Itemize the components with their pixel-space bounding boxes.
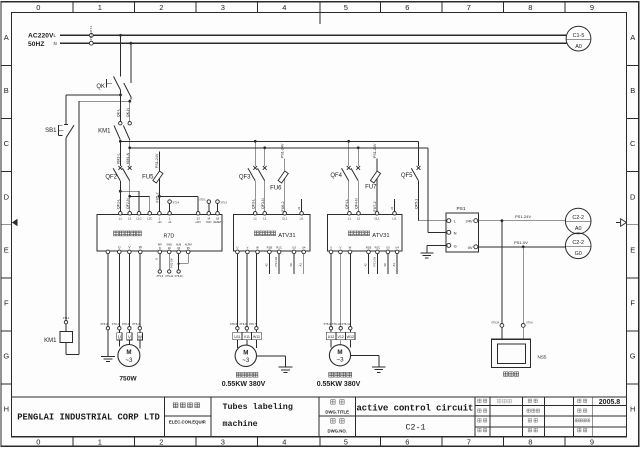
svg-text:M: M — [126, 349, 131, 356]
svg-text:XT1-1: XT1-1 — [89, 25, 93, 33]
svg-text:W: W — [256, 246, 259, 250]
wire M3 to ground — [351, 354, 379, 356]
node L rail start — [119, 140, 122, 143]
svg-text:L1C: L1C — [136, 217, 141, 221]
svg-text:3: 3 — [221, 437, 225, 446]
svg-text:R1B: R1B — [267, 246, 273, 250]
svg-text:L2: L2 — [128, 217, 132, 221]
svg-text:F: F — [4, 299, 9, 308]
svg-text:R1C: R1C — [375, 246, 381, 250]
svg-text:ATV31: ATV31 — [278, 233, 295, 239]
wire coil return — [65, 343, 67, 355]
wire L rail — [120, 140, 418, 142]
node L drop — [119, 34, 122, 37]
node N drop — [129, 42, 132, 45]
breaker QK — [120, 35, 122, 76]
svg-text:PS1-0V: PS1-0V — [372, 257, 376, 267]
servo amplifier box U1 — [97, 214, 222, 251]
ground at PS1 — [420, 252, 433, 254]
svg-text:PS1-24V: PS1-24V — [373, 143, 377, 158]
svg-text:QF3-L: QF3-L — [251, 199, 255, 209]
wire N rail to PS1 N — [427, 148, 429, 233]
title grid small labels — [478, 399, 481, 402]
wire below QK L — [119, 94, 122, 97]
svg-text:1: 1 — [98, 437, 102, 446]
svg-text:machine: machine — [223, 419, 258, 429]
svg-text:L1: L1 — [119, 217, 123, 221]
svg-text:S0: S0 — [383, 263, 387, 267]
svg-text:10: 10 — [168, 246, 172, 250]
svg-text:2005.8: 2005.8 — [599, 399, 621, 406]
svg-text:W: W — [139, 246, 142, 250]
inverter2 control wires — [368, 254, 370, 275]
svg-text:C2-2: C2-2 — [572, 240, 584, 246]
svg-text:XT6-5: XT6-5 — [230, 322, 238, 326]
wire M2 to ground — [257, 355, 286, 357]
terminal stub 2 — [169, 203, 171, 211]
svg-text:XT6-1: XT6-1 — [112, 322, 120, 326]
svg-text:7: 7 — [467, 437, 471, 446]
jumper 1-13 — [158, 195, 161, 198]
svg-text:FU7-2: FU7-2 — [373, 202, 377, 212]
svg-text:FU5: FU5 — [142, 175, 154, 181]
svg-text:XT2-4: XT2-4 — [173, 201, 180, 204]
ground at M2 — [279, 366, 293, 368]
svg-text:QF2-N: QF2-N — [126, 198, 130, 209]
svg-text:W12: W12 — [347, 335, 354, 339]
svg-text:QF2-L: QF2-L — [117, 199, 121, 209]
svg-text:A: A — [4, 33, 9, 42]
svg-text:24V: 24V — [465, 219, 472, 224]
motor M3 — [329, 345, 350, 366]
svg-text:PS1-24V: PS1-24V — [281, 143, 285, 158]
svg-text:XT6-6: XT6-6 — [239, 322, 247, 326]
svg-text:8: 8 — [528, 437, 532, 446]
servo bottom terminals — [106, 250, 110, 254]
node taps — [254, 140, 257, 143]
svg-text:KM1: KM1 — [44, 338, 57, 344]
svg-text:ATV31: ATV31 — [372, 233, 389, 239]
label M2 — [236, 372, 241, 377]
svg-text:CL1: CL1 — [374, 217, 380, 221]
svg-text:G: G — [454, 243, 457, 248]
wire SB1 to coil — [65, 138, 67, 321]
svg-text:~3: ~3 — [242, 357, 250, 364]
svg-text:W: W — [349, 246, 352, 250]
svg-text:S: S — [154, 258, 158, 260]
svg-text:R7D: R7D — [164, 233, 175, 239]
right center mark — [621, 219, 627, 227]
motor M1 phase labels — [117, 333, 122, 340]
svg-text:L2C: L2C — [147, 217, 152, 221]
svg-text:W11: W11 — [253, 335, 260, 339]
wire N rail — [130, 147, 428, 149]
label M3 — [329, 372, 334, 377]
svg-text:L1: L1 — [254, 217, 258, 221]
motor M3 phase labels — [326, 332, 335, 339]
svg-text:7: 7 — [467, 3, 471, 12]
svg-text:M: M — [337, 349, 342, 356]
svg-text:QF2: QF2 — [105, 175, 117, 181]
svg-text:SB1: SB1 — [45, 128, 57, 134]
svg-text:XT6-10: XT6-10 — [332, 322, 341, 326]
wire PS1-24V — [478, 220, 565, 222]
svg-text:KM1: KM1 — [98, 129, 111, 135]
svg-text:QF3-N: QF3-N — [261, 198, 265, 209]
svg-text:Tubes labeling: Tubes labeling — [223, 402, 293, 412]
svg-text:S0: S0 — [289, 263, 293, 267]
inverter1 top terminals — [253, 212, 257, 216]
svg-text:DWG.TITLE: DWG.TITLE — [325, 409, 349, 414]
svg-text:PS1-24V: PS1-24V — [155, 153, 159, 168]
svg-text:B: B — [630, 86, 635, 95]
svg-text:XT6-9: XT6-9 — [323, 322, 331, 326]
touch panel terminals — [500, 324, 504, 328]
svg-text:QF5-1: QF5-1 — [415, 199, 419, 209]
svg-text:D: D — [630, 192, 636, 201]
svg-text:C2-2: C2-2 — [572, 215, 584, 221]
svg-text:A1: A1 — [299, 263, 303, 267]
svg-text:U: U — [118, 334, 121, 339]
wire QF5 to PS1 L — [419, 220, 447, 222]
terminal XT1-N — [89, 41, 93, 45]
inverter2 bottom terminals — [329, 250, 333, 254]
motor M2 drops — [236, 254, 238, 327]
svg-text:LI1: LI1 — [300, 217, 304, 221]
svg-text:G0: G0 — [575, 251, 582, 257]
title block — [12, 396, 627, 398]
svg-text:6: 6 — [405, 437, 409, 446]
svg-text:42: 42 — [364, 263, 368, 267]
terminal QK-L — [119, 122, 122, 125]
ground at M1 — [107, 330, 109, 356]
svg-text:LI1: LI1 — [392, 217, 396, 221]
terminal stub 14 — [208, 203, 210, 211]
svg-text:V11: V11 — [244, 335, 250, 339]
svg-text:9: 9 — [590, 3, 594, 12]
svg-text:RESET: RESET — [214, 221, 223, 224]
svg-text:QK-N: QK-N — [126, 108, 130, 117]
terminal XT1-L — [89, 33, 93, 37]
svg-text:XT5-24: XT5-24 — [491, 322, 500, 325]
inverter 2 box ATV31 — [328, 214, 402, 251]
terminal stub 18 — [217, 203, 219, 211]
inverter1 control wires — [268, 254, 270, 274]
svg-text:W: W — [138, 334, 142, 339]
breaker QF3 — [254, 141, 256, 166]
fuse FU5 — [158, 152, 160, 212]
svg-text:active control circuit: active control circuit — [356, 402, 473, 413]
motor M3 drops — [330, 254, 332, 327]
touch panel NS5 — [491, 339, 530, 367]
servo top terminals — [119, 212, 123, 216]
wire PS1-0V — [478, 246, 565, 248]
svg-text:V: V — [246, 246, 248, 250]
svg-text:0.55KW 380V: 0.55KW 380V — [317, 381, 361, 388]
fuse FU7 — [376, 159, 378, 212]
svg-text:R1C: R1C — [276, 246, 282, 250]
svg-text:XT6-7: XT6-7 — [249, 322, 257, 326]
svg-text:D: D — [4, 192, 10, 201]
svg-text:A: A — [630, 33, 635, 42]
svg-text:G: G — [630, 352, 636, 361]
svg-text:U: U — [330, 246, 332, 250]
svg-text:XT6-11: XT6-11 — [341, 322, 350, 326]
svg-text:PS1-0V: PS1-0V — [169, 258, 173, 268]
svg-text:U4: U4 — [395, 246, 399, 250]
svg-text:0: 0 — [36, 3, 40, 12]
svg-text:A0: A0 — [575, 44, 582, 50]
svg-text:XT3-4: XT3-4 — [63, 317, 70, 320]
svg-text:C: C — [4, 139, 10, 148]
svg-text:XT1-2: XT1-2 — [89, 33, 93, 41]
node N rail start — [129, 140, 131, 148]
svg-text:9: 9 — [590, 437, 594, 446]
svg-text:C1-5: C1-5 — [573, 33, 585, 39]
svg-text:R1B: R1B — [366, 246, 372, 250]
jumper L2-L2C — [128, 195, 131, 198]
svg-text:4: 4 — [282, 3, 286, 12]
svg-text:PENGLAI INDUSTRIAL CORP LTD: PENGLAI INDUSTRIAL CORP LTD — [17, 413, 160, 423]
svg-text:M: M — [243, 350, 248, 357]
svg-text:XT5-9: XT5-9 — [157, 275, 164, 278]
svg-text:RUN: RUN — [206, 221, 211, 224]
svg-text:L2: L2 — [357, 217, 361, 221]
wire N line — [60, 42, 567, 44]
label touch panel — [503, 372, 508, 377]
svg-text:42: 42 — [264, 263, 268, 267]
svg-text:U4: U4 — [302, 246, 306, 250]
svg-text:N: N — [54, 41, 57, 46]
svg-text:V: V — [339, 246, 341, 250]
wire 35 jumper — [187, 254, 189, 264]
dwg title cell — [331, 400, 336, 405]
svg-text:CL1: CL1 — [282, 217, 288, 221]
svg-text:N: N — [454, 230, 457, 235]
breaker QF2 — [119, 141, 121, 166]
svg-text:+24: +24 — [157, 221, 162, 224]
svg-text:V: V — [128, 334, 131, 339]
svg-text:4: 4 — [282, 437, 286, 446]
jumper L1-L1C — [119, 190, 122, 193]
svg-text:~3: ~3 — [125, 357, 133, 364]
svg-text:L1: L1 — [348, 217, 352, 221]
svg-text:~3: ~3 — [336, 357, 344, 364]
svg-text:A1: A1 — [392, 263, 396, 267]
svg-text:QK-L: QK-L — [117, 109, 121, 117]
svg-text:XT6-2: XT6-2 — [122, 322, 130, 326]
svg-text:5: 5 — [344, 3, 348, 12]
svg-text:QF4-L: QF4-L — [345, 199, 349, 209]
breaker QF4 — [348, 141, 350, 166]
motor M2 phase labels — [233, 332, 242, 339]
svg-text:PS1-0V: PS1-0V — [274, 257, 278, 267]
power supply PS1 — [446, 213, 479, 252]
svg-text:E: E — [4, 245, 9, 254]
svg-text:750W: 750W — [119, 376, 137, 383]
inverter2 top terminals — [348, 212, 352, 216]
top center mark — [319, 2, 321, 24]
svg-text:XT5-40: XT5-40 — [175, 275, 184, 278]
svg-text:50HZ: 50HZ — [28, 41, 45, 48]
svg-text:NS5: NS5 — [538, 354, 547, 359]
terminal QK-N — [128, 122, 131, 125]
svg-text:8: 8 — [528, 3, 532, 12]
svg-text:U: U — [236, 246, 238, 250]
svg-text:V12: V12 — [337, 335, 343, 339]
svg-text:U3: U3 — [292, 246, 296, 250]
svg-text:+24V: +24V — [195, 221, 201, 224]
motor M2 — [235, 345, 256, 366]
svg-text:2: 2 — [159, 3, 163, 12]
svg-text:FU7: FU7 — [365, 185, 377, 191]
stub LI1-2 — [394, 199, 396, 212]
svg-text:2: 2 — [159, 437, 163, 446]
svg-text:XT5-0: XT5-0 — [526, 322, 533, 325]
svg-text:35: 35 — [187, 246, 191, 250]
svg-text:QF4-N: QF4-N — [354, 198, 358, 209]
svg-text:QF3: QF3 — [239, 175, 251, 181]
svg-text:QF4: QF4 — [330, 173, 342, 179]
contactor KM1 contacts — [114, 126, 120, 140]
svg-text:B: B — [4, 86, 9, 95]
svg-text:G: G — [3, 352, 9, 361]
svg-text:L2: L2 — [263, 217, 267, 221]
wire below QK N — [128, 100, 131, 103]
svg-text:DWG.NO.: DWG.NO. — [328, 428, 347, 433]
left center mark — [12, 219, 18, 227]
project name cell — [173, 403, 178, 408]
svg-text:6: 6 — [405, 3, 409, 12]
motor M1 — [118, 345, 140, 367]
svg-text:XT6-0: XT6-0 — [100, 322, 108, 326]
svg-text:QF5: QF5 — [401, 173, 413, 179]
wire 0V to touch panel — [522, 247, 524, 324]
svg-text:C: C — [630, 139, 636, 148]
svg-text:H: H — [4, 405, 9, 414]
svg-text:XT5-2: XT5-2 — [221, 201, 228, 204]
svg-text:F: F — [630, 299, 635, 308]
servo control wires — [159, 254, 161, 270]
svg-text:5: 5 — [344, 437, 348, 446]
svg-text:0: 0 — [36, 437, 40, 446]
bottom center mark — [319, 437, 321, 447]
wire 24V to touch panel — [501, 221, 503, 324]
svg-text:QK: QK — [96, 84, 105, 90]
wire PS1 G to ground — [427, 244, 447, 246]
svg-text:H: H — [630, 405, 635, 414]
svg-text:PS1: PS1 — [456, 206, 465, 212]
svg-text:U3: U3 — [386, 246, 390, 250]
wire L line — [60, 34, 566, 36]
svg-text:XT5-41: XT5-41 — [165, 275, 174, 278]
svg-text:3: 3 — [221, 3, 225, 12]
svg-text:0V: 0V — [468, 245, 473, 250]
svg-text:PS1-24V: PS1-24V — [515, 214, 531, 219]
svg-text:PS1-0V: PS1-0V — [514, 240, 528, 245]
pushbutton SB1 — [65, 95, 67, 124]
motor M1 drops — [107, 254, 109, 327]
breaker QF5 — [418, 141, 420, 166]
svg-text:XT5-1: XT5-1 — [199, 199, 206, 202]
svg-text:C2-1: C2-1 — [406, 423, 426, 432]
svg-text:1: 1 — [98, 3, 102, 12]
inverter 1 box ATV31 — [234, 214, 310, 251]
stub LI1 — [301, 199, 303, 212]
svg-text:A0: A0 — [575, 226, 582, 232]
inverter1 bottom terminals — [236, 250, 240, 254]
ground at M3 — [372, 366, 386, 368]
contactor coil KM1 — [64, 321, 67, 324]
svg-text:FU6-2: FU6-2 — [281, 202, 285, 212]
svg-text:34: 34 — [177, 246, 181, 250]
connector C2-2 / G0 — [565, 233, 591, 259]
fuse FU6 — [284, 159, 286, 212]
svg-text:XT6-3: XT6-3 — [132, 322, 140, 326]
connector C2-2 / A0 — [565, 208, 591, 234]
svg-text:ELEC.CON.EQUIP.: ELEC.CON.EQUIP. — [169, 419, 206, 424]
svg-text:E: E — [630, 245, 635, 254]
svg-text:U12: U12 — [328, 335, 335, 339]
svg-text:FU6: FU6 — [270, 185, 282, 191]
svg-text:0.55KW 380V: 0.55KW 380V — [222, 381, 266, 388]
svg-text:U11: U11 — [234, 335, 240, 339]
connector C1-5 / A0 — [566, 26, 591, 51]
svg-text:AC220V: AC220V — [28, 32, 54, 39]
